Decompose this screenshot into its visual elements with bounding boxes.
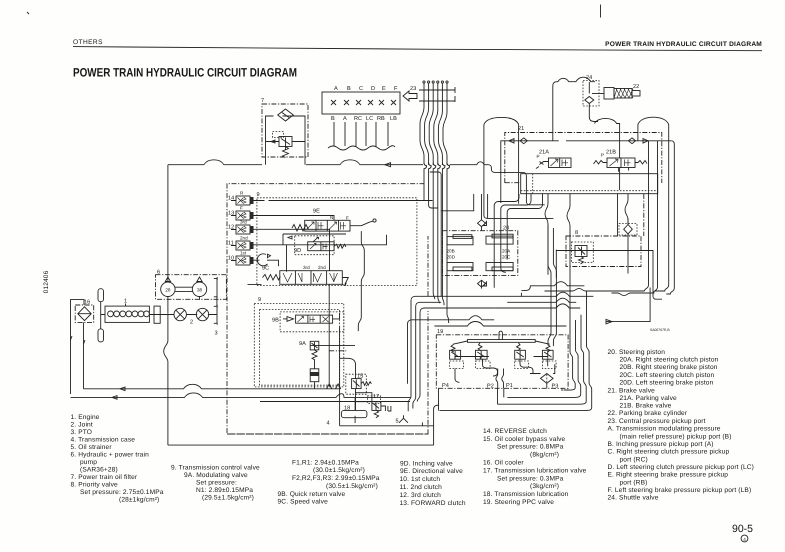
priority valve dash-dot enclosure 7 xyxy=(262,104,308,157)
dashed box 9 inner xyxy=(260,310,340,386)
pilot gallery through box 8 xyxy=(556,250,662,300)
P2 drop xyxy=(497,388,499,404)
svg-text:F1,R1: 2.94±0.15MPa: F1,R1: 2.94±0.15MPa xyxy=(292,460,359,467)
bundle crossing jogs at main bus xyxy=(424,163,450,323)
joint circle 2 xyxy=(196,308,208,320)
row line from 13 to 9E xyxy=(254,216,335,221)
svg-text:R: R xyxy=(240,191,244,196)
bus B segment into steering case wall xyxy=(430,172,441,211)
quick return valve 9B body xyxy=(296,315,333,323)
SEC:ENGINE xyxy=(71,160,545,445)
pedal bar xyxy=(468,340,536,343)
svg-text:6. Hydraulic + power train: 6. Hydraulic + power train xyxy=(71,452,150,459)
svg-text:20D. Left steering brake pisto: 20D. Left steering brake piston xyxy=(620,380,714,387)
svg-text:3rd: 3rd xyxy=(240,220,247,225)
horizontal returns from risers xyxy=(545,288,645,291)
lubrication manifold 18 xyxy=(341,410,367,417)
modulating valve 9A body xyxy=(310,341,319,350)
svg-text:22. Parking brake cylinder: 22. Parking brake cylinder xyxy=(608,410,688,417)
svg-text:F: F xyxy=(240,206,243,211)
svg-text:RB: RB xyxy=(377,116,385,122)
9C right lever xyxy=(342,278,348,286)
svg-text:OTHERS: OTHERS xyxy=(73,39,103,46)
line from arc to 9C xyxy=(248,260,279,284)
filter 16 diamond xyxy=(78,307,91,321)
steering case wall xyxy=(441,194,521,296)
return with arrow to SA label xyxy=(606,288,650,322)
svg-text:15. Oil cooler bypass valve: 15. Oil cooler bypass valve xyxy=(483,436,566,443)
svg-text:23. Central pressure pickup po: 23. Central pressure pickup port xyxy=(608,418,706,425)
svg-text:P: P xyxy=(537,154,540,159)
svg-text:21B. Brake valve: 21B. Brake valve xyxy=(620,403,672,410)
svg-text:3rd: 3rd xyxy=(303,265,310,270)
right vertical bundle down to P ports xyxy=(564,325,576,390)
interior feed drops xyxy=(494,194,519,288)
svg-text:7: 7 xyxy=(261,98,264,104)
svg-text:24. Shuttle valve: 24. Shuttle valve xyxy=(608,495,659,502)
spring 4 xyxy=(546,345,550,353)
9D right spring xyxy=(334,244,346,248)
svg-text:C: C xyxy=(359,86,363,92)
drop into top check xyxy=(481,194,483,289)
parking feed hump to 21B xyxy=(595,118,620,190)
dashed pilot boxes under valves xyxy=(450,361,464,369)
svg-text:8. Priority valve: 8. Priority valve xyxy=(71,482,119,489)
P3 drop xyxy=(561,388,563,391)
svg-text:22: 22 xyxy=(633,84,639,90)
P4 drop via left wall xyxy=(438,388,440,410)
svg-text:(SAR36+28): (SAR36+28) xyxy=(80,467,118,474)
big dash-dot enclosure (transmission valve group) xyxy=(227,184,428,434)
svg-text:14. REVERSE clutch: 14. REVERSE clutch xyxy=(483,428,547,435)
svg-text:20A: 20A xyxy=(502,249,511,254)
svg-text:POWER TRAIN HYDRAULIC CIRCUIT: POWER TRAIN HYDRAULIC CIRCUIT DIAGRAM xyxy=(605,41,762,48)
drops from valve body with break jogs xyxy=(545,194,548,275)
speed valve 9C body xyxy=(280,271,343,285)
svg-text:Set pressure: 0.3MPa: Set pressure: 0.3MPa xyxy=(497,475,564,482)
svg-text:port (RC): port (RC) xyxy=(620,456,648,463)
svg-text:9E: 9E xyxy=(313,209,320,215)
svg-text:17. Transmission lubrication v: 17. Transmission lubrication valve xyxy=(483,467,587,474)
engine block xyxy=(105,306,149,322)
filter 16 dash-dot box xyxy=(75,305,94,322)
svg-text:23: 23 xyxy=(410,86,416,92)
svg-text:012406: 012406 xyxy=(43,270,50,293)
dash-dot box 8 xyxy=(566,236,641,267)
drop from 21B to box 8 xyxy=(617,194,619,236)
hydraulic pump circle (28) xyxy=(161,282,175,296)
check diamond top xyxy=(478,220,486,227)
SEC:TRANSVALVE xyxy=(227,184,433,434)
pilot line with check diamond (left) xyxy=(501,141,559,203)
dash-dot enclosure 21 xyxy=(505,133,662,184)
SEC:CONNECTOR xyxy=(322,81,455,323)
return bus upper xyxy=(84,384,340,389)
bundle terminal dots xyxy=(423,81,448,83)
svg-text:9. Transmission control valv: 9. Transmission control valve xyxy=(171,465,260,472)
pedal stem xyxy=(499,331,502,339)
PPC valve 2 xyxy=(476,350,488,359)
svg-text:A: A xyxy=(334,86,338,92)
cylinder 22 rod xyxy=(632,91,640,97)
valve 8 spring xyxy=(579,257,584,265)
svg-text:A. Transmission modulating pr: A. Transmission modulating pressure xyxy=(608,426,721,433)
svg-text:RC: RC xyxy=(354,116,362,122)
PPC valve 1 xyxy=(450,350,461,359)
svg-text:P1: P1 xyxy=(506,383,513,389)
small corner mark left xyxy=(27,12,29,14)
svg-text:2nd: 2nd xyxy=(318,265,326,270)
svg-text:LC: LC xyxy=(366,116,373,122)
pump link lines xyxy=(175,287,192,291)
svg-text:B. Inching pressure pickup po: B. Inching pressure pickup port (A) xyxy=(608,441,714,448)
x pins xyxy=(331,100,396,105)
quick return valve 9B dashed box xyxy=(280,312,344,332)
check diamond bottom xyxy=(478,280,486,287)
pilot line right segment with diamond xyxy=(566,140,671,142)
valve 21A body xyxy=(549,158,572,168)
PTO case bracket upper xyxy=(214,277,217,298)
row line from 11 xyxy=(254,235,387,272)
top tick mark xyxy=(600,5,602,18)
bar end links xyxy=(453,341,550,344)
return bus lower xyxy=(71,393,412,398)
bottom collector lines xyxy=(260,401,410,403)
supply riser arch into 21 xyxy=(484,117,519,124)
wire bundle from connector 23 (6 lines) xyxy=(420,83,447,165)
return hump to far riser xyxy=(638,117,669,291)
svg-text:(3kg/cm²): (3kg/cm²) xyxy=(530,483,559,490)
valve 17 body xyxy=(372,402,381,411)
connector block A-F (central pressure pickup) xyxy=(322,92,400,114)
feed to valve 15 xyxy=(340,358,356,410)
main riser through box 9 xyxy=(328,284,330,386)
right tall risers xyxy=(645,141,649,291)
piston 20A (upper right) xyxy=(486,236,513,244)
shuttle valve 24 dashed box xyxy=(583,81,599,107)
inching valve 9D dashed box xyxy=(295,236,334,255)
valve 17 dashed box xyxy=(368,396,381,404)
drop to case interior xyxy=(487,194,489,218)
connector drop wires xyxy=(334,122,388,147)
svg-text:18. Transmission lubrication: 18. Transmission lubrication xyxy=(483,491,569,498)
svg-text:POWER TRAIN HYDRAULIC CIRCUIT: POWER TRAIN HYDRAULIC CIRCUIT DIAGRAM xyxy=(73,66,297,80)
svg-text:10. 1st clutch: 10. 1st clutch xyxy=(400,476,441,483)
circled 4 xyxy=(741,535,748,542)
tick arrows on loop xyxy=(71,336,86,344)
valve link line xyxy=(455,357,489,360)
oil strainer 5 xyxy=(399,415,408,423)
relief valve 8 spring xyxy=(283,147,289,158)
modulating piston (accumulator) xyxy=(310,369,319,382)
svg-text:13. FORWARD clutch: 13. FORWARD clutch xyxy=(400,500,466,507)
SEC:LOWERVALVES xyxy=(168,316,494,445)
shuttle diamond in 19 xyxy=(541,374,554,384)
filter diamond (power train oil filter) xyxy=(278,109,294,121)
svg-text:2. Joint: 2. Joint xyxy=(71,422,93,429)
svg-text:F. Left steering brake pressu: F. Left steering brake pressure pickup p… xyxy=(608,487,752,494)
svg-text:20B: 20B xyxy=(447,249,455,254)
supply line into 19 with hump xyxy=(434,322,566,327)
valve 15 spring right xyxy=(361,382,371,386)
check diamond above box 8 xyxy=(619,224,637,236)
relief valve 8 body xyxy=(279,137,292,147)
svg-text:(30.0±1.5kg/cm²): (30.0±1.5kg/cm²) xyxy=(313,467,365,474)
svg-text:9C. Speed valve: 9C. Speed valve xyxy=(278,499,329,506)
svg-text:C. Right steering clutch pres: C. Right steering clutch pressure pickup xyxy=(608,449,730,456)
svg-text:19: 19 xyxy=(437,329,443,335)
flow arrow on bus xyxy=(385,163,391,167)
pump drive drops xyxy=(168,297,200,314)
valve 15 body xyxy=(352,379,362,389)
9B inlet arrow xyxy=(283,318,287,320)
valve 21B body xyxy=(607,158,635,168)
check valve 14 (REVERSE) xyxy=(236,196,254,205)
svg-text:9B: 9B xyxy=(272,318,279,324)
cylinder 22 hatched spring section xyxy=(614,89,633,99)
dash-dot pilot segment xyxy=(329,350,346,352)
arch right leg down to pilot/drop xyxy=(518,124,520,203)
svg-text:9E. Directional valve: 9E. Directional valve xyxy=(400,468,463,475)
valve 17 drain bracket xyxy=(381,406,391,411)
pump intake arrows xyxy=(165,277,170,282)
PPC valve 3 xyxy=(515,350,526,359)
svg-text:9D. Inching valve: 9D. Inching valve xyxy=(400,461,453,468)
svg-text:16. Oil cooler: 16. Oil cooler xyxy=(483,460,524,467)
svg-text:F2,R2,F3,R3: 2.99±0.15MPa: F2,R2,F3,R3: 2.99±0.15MPa xyxy=(292,475,380,482)
svg-text:28: 28 xyxy=(165,287,171,292)
svg-text:Set pressure:: Set pressure: xyxy=(196,480,237,487)
power train pump circle (38) xyxy=(192,282,206,296)
exit lines to suction drops (left) xyxy=(408,296,441,411)
check valve 12 (3rd) xyxy=(236,225,254,234)
piping at 18/17 xyxy=(355,393,372,423)
header rule xyxy=(73,47,762,51)
line above 9D xyxy=(283,234,346,245)
inching valve 9D body xyxy=(308,242,334,251)
case bottom long wall xyxy=(168,444,434,446)
svg-text:20C. Left steering clutch pist: 20C. Left steering clutch piston xyxy=(620,372,715,379)
piston 20B (upper left) xyxy=(447,237,473,245)
SEC:ROUTING xyxy=(439,225,592,411)
piston 20D (lower left) xyxy=(447,263,473,271)
PTO case bracket lower xyxy=(214,305,217,325)
svg-text:90-5: 90-5 xyxy=(732,523,753,535)
PPC valve 4 xyxy=(542,350,553,359)
valve 15 dashed box xyxy=(346,374,367,394)
transmission case left wall xyxy=(164,165,168,445)
bottom arrows in box 9 xyxy=(327,384,341,389)
main supply riser to parking valve xyxy=(553,77,595,141)
spring 1 xyxy=(451,345,455,353)
svg-text:20A. Right steering clutch pis: 20A. Right steering clutch piston xyxy=(620,357,719,364)
svg-text:20. Steering piston: 20. Steering piston xyxy=(608,349,666,356)
vertical bundle right of steering case xyxy=(548,225,551,345)
suction hump on exit line xyxy=(469,316,494,320)
dotted box around control valves xyxy=(257,198,417,286)
dashed box 9 outer xyxy=(254,303,343,387)
svg-text:9: 9 xyxy=(257,192,260,198)
svg-text:9A. Modulating valve: 9A. Modulating valve xyxy=(184,472,248,479)
svg-text:(29.5±1.5kg/cm²): (29.5±1.5kg/cm²) xyxy=(202,495,254,502)
SEC:PRIORITY xyxy=(261,98,308,165)
svg-text:(main relief pressure) pickup: (main relief pressure) pickup port (B) xyxy=(620,433,732,440)
damper pill upper xyxy=(98,289,104,302)
svg-text:N1: 2.89±0.15MPa: N1: 2.89±0.15MPa xyxy=(196,487,253,494)
svg-text:12. 3rd clutch: 12. 3rd clutch xyxy=(400,492,442,499)
svg-text:E. Right steering brake press: E. Right steering brake pressure pickup xyxy=(608,472,729,479)
output shaft xyxy=(149,314,216,316)
svg-text:LB: LB xyxy=(390,116,397,122)
shuttle valve 24 diamond xyxy=(585,97,594,104)
svg-text:Set pressure: 0.8MPa: Set pressure: 0.8MPa xyxy=(497,444,564,451)
valve 8 body xyxy=(575,246,587,257)
arrows on return buses xyxy=(112,387,125,399)
9A outlet line right xyxy=(310,345,355,347)
line 9A to accumulator xyxy=(314,360,316,389)
SEC:BRAKE19 xyxy=(434,322,568,390)
svg-text:5. Oil strainer: 5. Oil strainer xyxy=(71,444,113,451)
directional valve 9E spring xyxy=(292,225,309,232)
svg-text:4: 4 xyxy=(743,537,746,542)
SEC:TOPRIGHT xyxy=(553,75,669,291)
9B right link xyxy=(333,313,340,426)
SEC:BOX20 xyxy=(408,194,594,411)
svg-text:SA00797E-B: SA00797E-B xyxy=(650,328,670,332)
piston 20C (lower right) xyxy=(486,263,513,271)
svg-text:(8kg/cm²): (8kg/cm²) xyxy=(530,452,559,459)
transmission case bottom wall xyxy=(340,422,434,425)
svg-text:D. Left steering clutch press: D. Left steering clutch pressure pickup … xyxy=(608,464,754,471)
svg-text:P3: P3 xyxy=(552,384,559,390)
row line from 12 xyxy=(254,229,330,270)
P1 drop xyxy=(503,388,505,397)
arch left leg down to distribution line xyxy=(484,124,554,218)
svg-text:D: D xyxy=(371,86,375,92)
row line from 10 to arc xyxy=(254,259,260,261)
svg-text:B: B xyxy=(347,86,351,92)
spring 3 xyxy=(517,343,521,351)
check valve 10 (1st) xyxy=(236,256,254,265)
row line from 14 xyxy=(254,200,433,202)
9D top arrow xyxy=(313,237,319,242)
svg-text:A: A xyxy=(343,116,347,122)
9E manual lever with knob xyxy=(350,221,373,226)
svg-text:P2: P2 xyxy=(487,384,494,390)
svg-text:5: 5 xyxy=(396,419,399,425)
svg-text:(28±1kg/cm²): (28±1kg/cm²) xyxy=(119,497,159,504)
parking brake cylinder 22 body xyxy=(604,88,614,100)
shaft plate xyxy=(154,306,160,323)
svg-text:11. 2nd clutch: 11. 2nd clutch xyxy=(400,484,443,491)
svg-text:21B: 21B xyxy=(606,150,616,156)
wire 24 to cylinder 22 xyxy=(592,93,604,95)
svg-text:9B. Quick return valve: 9B. Quick return valve xyxy=(278,491,346,498)
svg-text:port (RB): port (RB) xyxy=(620,479,648,486)
svg-text:21A. Parking valve: 21A. Parking valve xyxy=(620,395,678,402)
svg-text:F: F xyxy=(346,216,349,221)
svg-text:3: 3 xyxy=(215,331,218,337)
svg-text:B: B xyxy=(331,116,335,122)
hollow arrow 23 xyxy=(403,91,417,101)
svg-text:1. Engine: 1. Engine xyxy=(71,414,100,421)
case exit lines right xyxy=(521,282,584,291)
engine cylinders xyxy=(108,311,150,317)
directional valve 9E body xyxy=(305,220,350,231)
svg-text:pump: pump xyxy=(80,459,97,466)
svg-text:2nd: 2nd xyxy=(240,236,248,241)
wire from riser into 24 xyxy=(589,82,598,122)
check valve 13 (FORWARD) xyxy=(236,211,254,220)
check valve 11 (2nd) xyxy=(236,241,254,250)
spring 2 xyxy=(478,343,482,351)
svg-text:9: 9 xyxy=(258,297,261,303)
svg-text:21A: 21A xyxy=(539,150,549,156)
svg-text:20D: 20D xyxy=(447,255,456,260)
svg-text:9A: 9A xyxy=(299,341,306,347)
svg-text:E: E xyxy=(382,86,386,92)
svg-text:20C: 20C xyxy=(502,255,511,260)
valve body block xyxy=(521,174,658,194)
svg-text:21. Brake valve: 21. Brake valve xyxy=(608,387,656,394)
svg-text:8: 8 xyxy=(575,230,578,236)
bottom dash-dot of big enclosure xyxy=(227,433,428,435)
svg-text:7. Power train oil filter: 7. Power train oil filter xyxy=(71,474,138,481)
svg-text:4. Transmission case: 4. Transmission case xyxy=(71,437,136,444)
arrowheads on loop xyxy=(271,140,275,143)
svg-text:Set pressure: 2.75±0.1MPa: Set pressure: 2.75±0.1MPa xyxy=(80,489,164,496)
case right wall riser xyxy=(434,405,440,445)
dash-dot enclosure 20 xyxy=(442,231,517,276)
speed valve 9C spring xyxy=(263,275,281,281)
svg-text:P4: P4 xyxy=(442,383,449,389)
wavy break under wires xyxy=(328,146,395,150)
svg-text:N: N xyxy=(330,215,333,220)
internal piping of 19 xyxy=(455,359,498,382)
main pressure bus (top) xyxy=(168,160,262,165)
damper link shaft xyxy=(101,302,105,329)
filter loop left xyxy=(71,300,85,394)
joint circle 1 xyxy=(174,308,186,320)
arc arrow (torque converter port) xyxy=(257,254,270,266)
svg-text:4: 4 xyxy=(327,421,330,427)
svg-text:(30.5±1.5kg/cm²): (30.5±1.5kg/cm²) xyxy=(326,483,378,490)
svg-text:9C: 9C xyxy=(262,266,269,272)
pickup bar 23 xyxy=(419,87,455,102)
9A spring below xyxy=(312,350,317,360)
check valve stubs left xyxy=(231,201,236,261)
damper pill lower xyxy=(98,329,104,342)
dash-dot enclosure 19 xyxy=(436,335,568,389)
svg-text:19. Steering PPC valve: 19. Steering PPC valve xyxy=(483,499,554,506)
svg-text:20B. Right steering brake pist: 20B. Right steering brake piston xyxy=(620,364,718,371)
filter outlet down to return bus xyxy=(83,322,85,388)
valve 17 spring below xyxy=(374,410,378,417)
PTO pump dash-dot box 6 xyxy=(156,275,227,300)
relief valve 8 pilot dashed box xyxy=(273,132,284,138)
svg-text:2: 2 xyxy=(190,320,193,326)
svg-text:38: 38 xyxy=(197,287,203,292)
priority loop wires xyxy=(266,116,306,165)
SEC:STEERING xyxy=(484,117,674,325)
SEC:LEGEND xyxy=(71,349,754,507)
pilot return riser xyxy=(666,141,674,294)
svg-text:F: F xyxy=(394,86,398,92)
svg-text:1st: 1st xyxy=(240,251,247,256)
svg-text:3. PTO: 3. PTO xyxy=(71,429,93,436)
svg-text:P: P xyxy=(601,153,604,158)
